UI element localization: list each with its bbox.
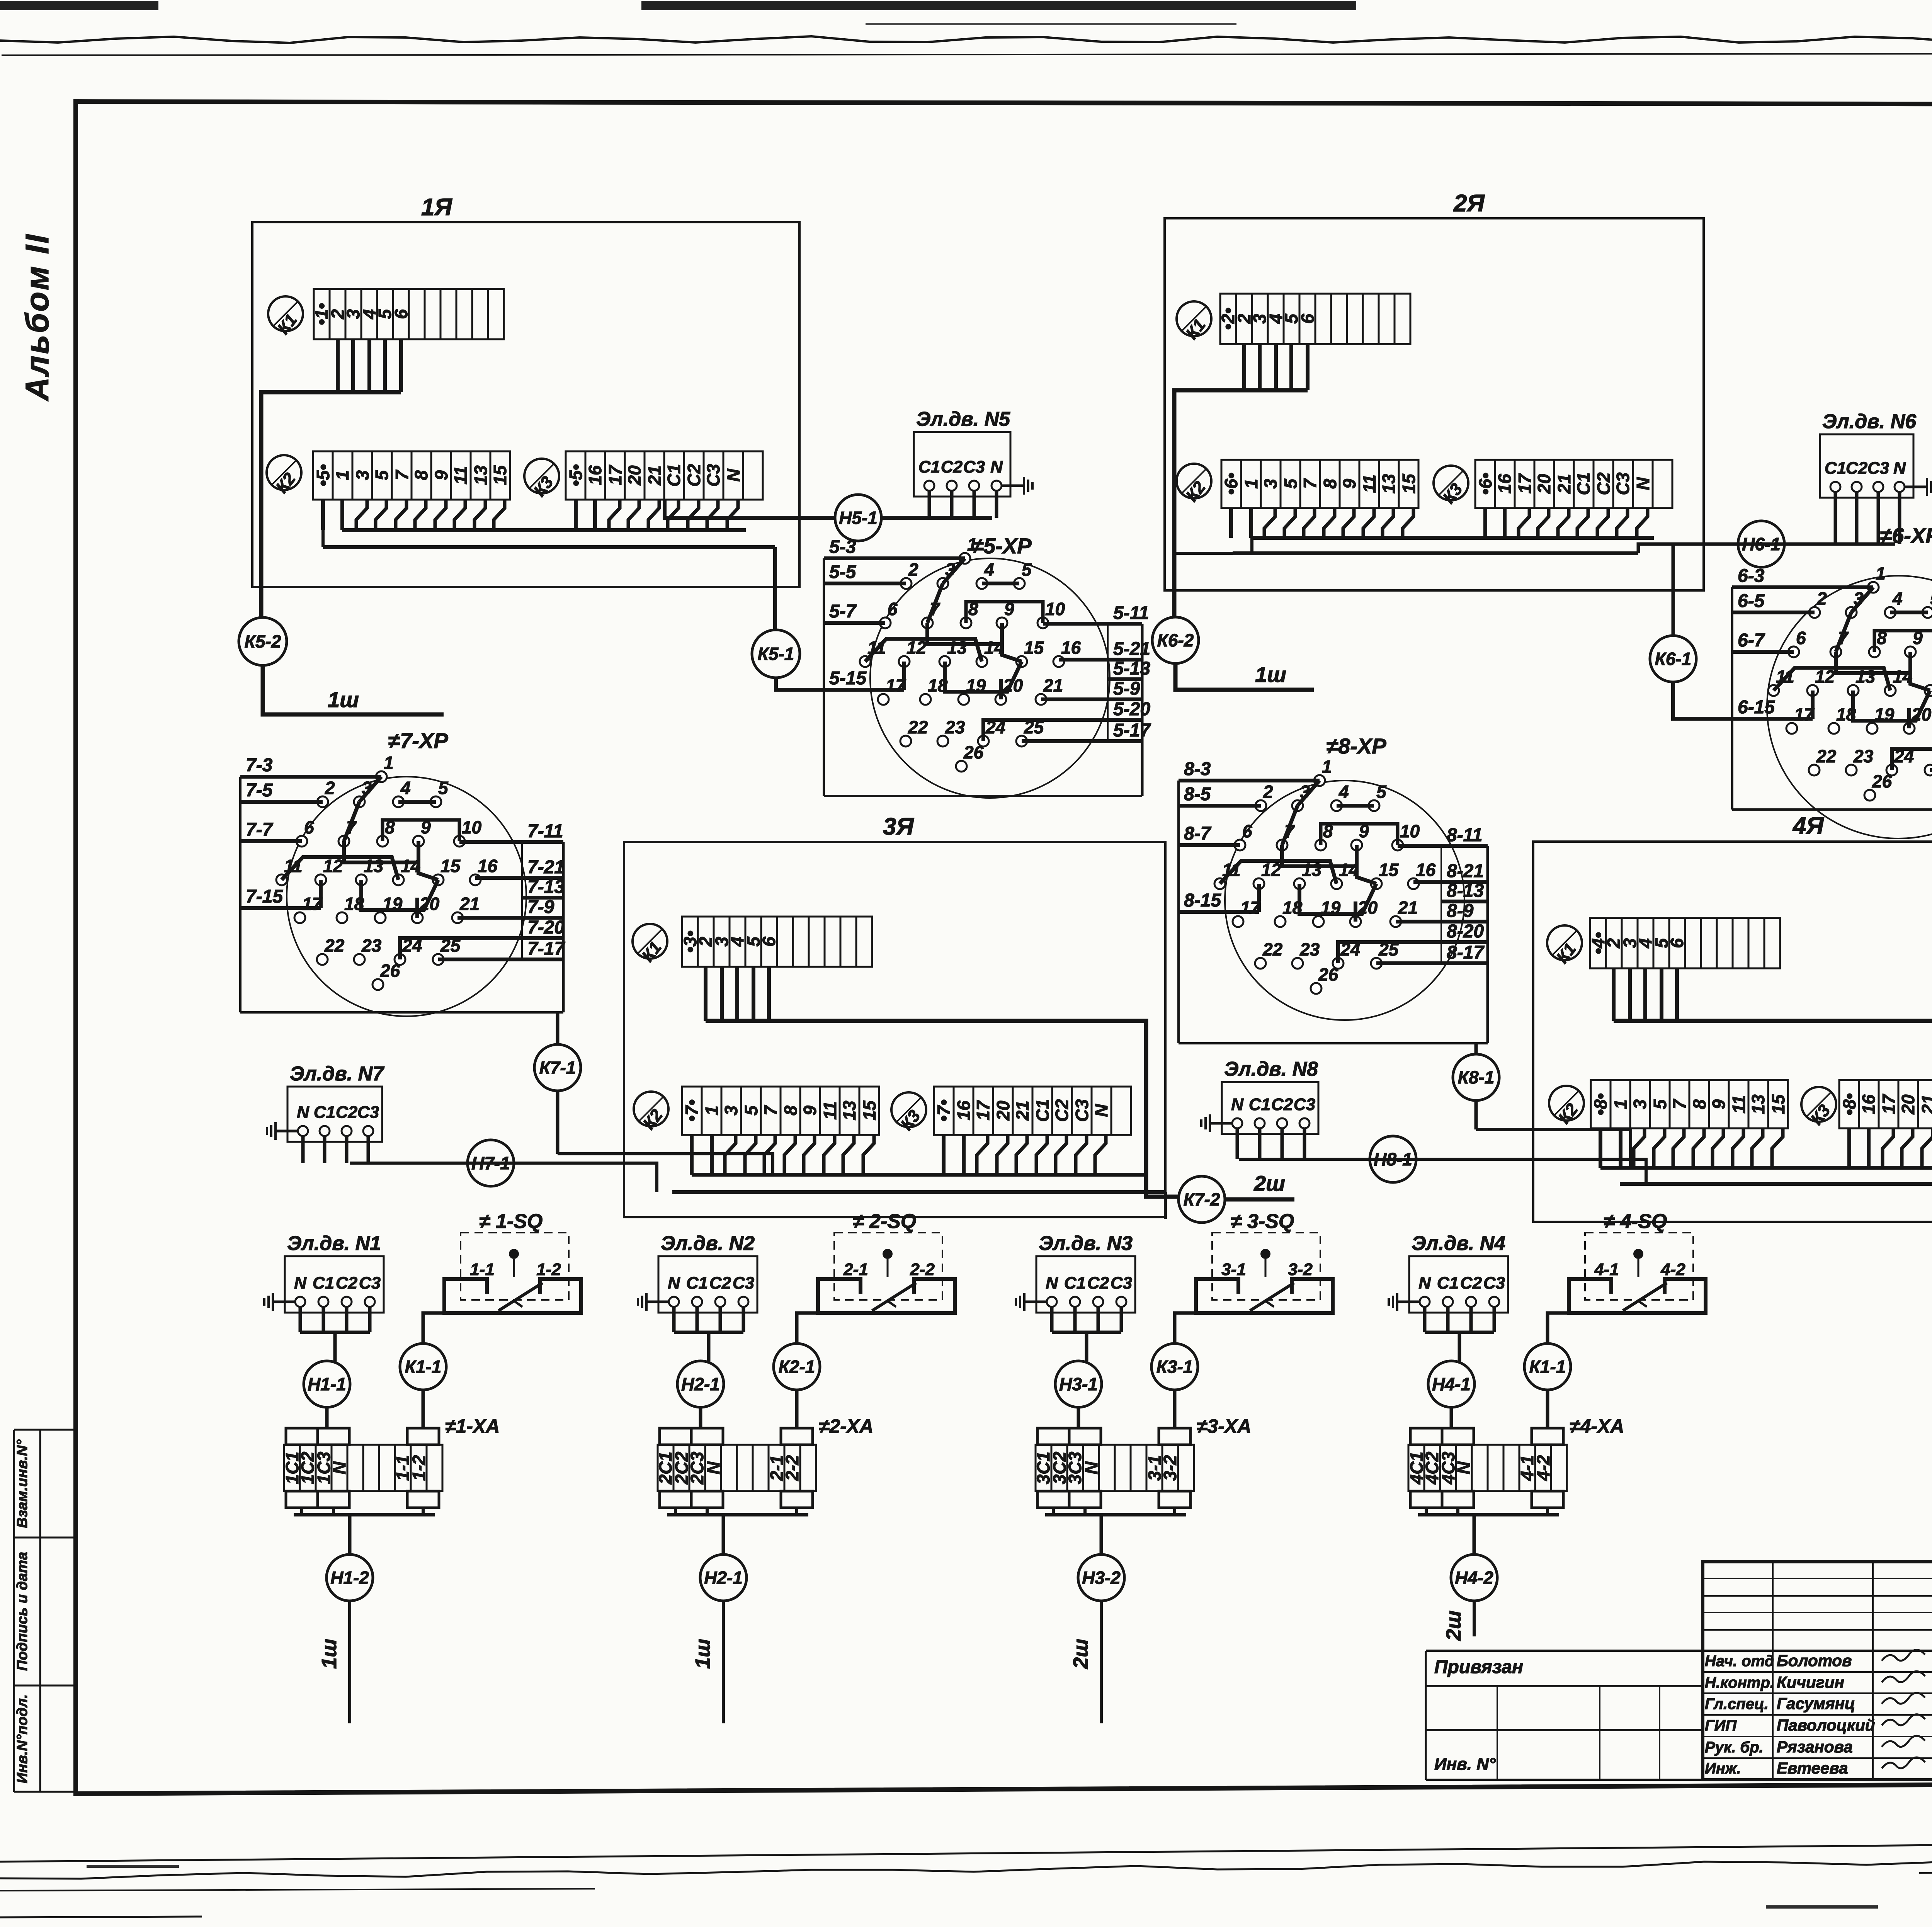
svg-text:9: 9 bbox=[800, 1106, 820, 1116]
svg-text:13: 13 bbox=[1748, 1094, 1768, 1114]
svg-text:8: 8 bbox=[411, 470, 431, 480]
svg-text:7: 7 bbox=[760, 1105, 781, 1116]
svg-text:5: 5 bbox=[1650, 1099, 1670, 1109]
svg-text:Н3-1: Н3-1 bbox=[1059, 1374, 1098, 1394]
svg-text:1-1: 1-1 bbox=[470, 1260, 495, 1279]
svg-text:C1: C1 bbox=[314, 1103, 335, 1122]
svg-text:1: 1 bbox=[1876, 563, 1886, 583]
svg-text:Эл.дв. N3: Эл.дв. N3 bbox=[1039, 1232, 1133, 1255]
svg-text:Н1-2: Н1-2 bbox=[330, 1568, 369, 1588]
svg-text:Рук. бр.: Рук. бр. bbox=[1705, 1739, 1764, 1756]
svg-text:13: 13 bbox=[471, 465, 491, 485]
svg-text:20: 20 bbox=[1898, 1094, 1918, 1115]
svg-text:2: 2 bbox=[908, 560, 918, 580]
svg-text:N: N bbox=[723, 469, 743, 482]
svg-text:16: 16 bbox=[1061, 638, 1081, 658]
svg-text:1ш: 1ш bbox=[1255, 662, 1286, 687]
svg-text:Н4-1: Н4-1 bbox=[1432, 1374, 1471, 1394]
svg-text:N: N bbox=[668, 1274, 680, 1293]
svg-text:•6•: •6• bbox=[1475, 473, 1495, 495]
svg-text:8-7: 8-7 bbox=[1184, 823, 1212, 844]
svg-text:6-15: 6-15 bbox=[1738, 697, 1775, 718]
svg-text:20: 20 bbox=[1534, 474, 1554, 494]
svg-text:15: 15 bbox=[859, 1100, 879, 1121]
svg-text:C1: C1 bbox=[1437, 1274, 1459, 1293]
svg-text:C1: C1 bbox=[1249, 1095, 1270, 1114]
svg-text:N: N bbox=[1418, 1274, 1431, 1293]
svg-text:2-2: 2-2 bbox=[910, 1260, 935, 1279]
svg-text:17: 17 bbox=[973, 1100, 993, 1121]
svg-text:6: 6 bbox=[1796, 628, 1806, 648]
svg-text:•8•: •8• bbox=[1839, 1093, 1859, 1116]
svg-text:8-13: 8-13 bbox=[1447, 881, 1484, 901]
svg-text:8: 8 bbox=[1689, 1099, 1709, 1109]
svg-text:23: 23 bbox=[361, 935, 382, 956]
svg-text:11: 11 bbox=[451, 466, 471, 485]
svg-text:≠ 4-SQ: ≠ 4-SQ bbox=[1604, 1210, 1667, 1233]
svg-text:6-7: 6-7 bbox=[1738, 630, 1765, 651]
svg-text:1: 1 bbox=[384, 753, 394, 773]
svg-text:С1: С1 bbox=[1032, 1099, 1053, 1122]
svg-text:8-3: 8-3 bbox=[1184, 759, 1211, 779]
svg-text:С1: С1 bbox=[1573, 473, 1594, 495]
svg-text:N: N bbox=[294, 1274, 307, 1293]
svg-text:26: 26 bbox=[380, 961, 400, 981]
svg-text:К3-1: К3-1 bbox=[1156, 1357, 1193, 1377]
svg-text:16: 16 bbox=[1495, 474, 1515, 494]
svg-text:C3: C3 bbox=[1111, 1274, 1132, 1293]
svg-text:5-15: 5-15 bbox=[829, 668, 867, 689]
svg-text:2-1: 2-1 bbox=[843, 1260, 868, 1279]
svg-text:21: 21 bbox=[1043, 675, 1063, 696]
svg-text:4: 4 bbox=[984, 560, 994, 580]
svg-text:≠ 1-SQ: ≠ 1-SQ bbox=[479, 1210, 543, 1233]
svg-text:1: 1 bbox=[967, 534, 977, 554]
svg-text:К6-2: К6-2 bbox=[1157, 630, 1194, 650]
svg-text:3: 3 bbox=[352, 470, 372, 480]
svg-text:≠3-XA: ≠3-XA bbox=[1197, 1415, 1251, 1437]
svg-text:N: N bbox=[1081, 1461, 1101, 1475]
svg-text:6-3: 6-3 bbox=[1738, 566, 1765, 586]
svg-text:N: N bbox=[1893, 459, 1906, 478]
svg-text:4: 4 bbox=[1338, 782, 1349, 802]
svg-text:9: 9 bbox=[1339, 479, 1359, 489]
svg-text:5-17: 5-17 bbox=[1113, 720, 1151, 741]
svg-text:•7•: •7• bbox=[682, 1099, 702, 1122]
svg-text:8-21: 8-21 bbox=[1447, 861, 1484, 881]
svg-text:C1: C1 bbox=[1064, 1274, 1086, 1293]
svg-text:3-2: 3-2 bbox=[1160, 1455, 1180, 1481]
svg-text:5: 5 bbox=[741, 1105, 761, 1116]
svg-text:10: 10 bbox=[462, 817, 482, 837]
svg-text:C3: C3 bbox=[1867, 459, 1889, 478]
svg-text:Гл.спец.: Гл.спец. bbox=[1705, 1696, 1769, 1713]
svg-text:≠ 2-SQ: ≠ 2-SQ bbox=[853, 1210, 916, 1233]
svg-text:Эл.дв. N5: Эл.дв. N5 bbox=[916, 408, 1010, 430]
svg-text:≠8-XP: ≠8-XP bbox=[1326, 734, 1386, 758]
svg-text:2: 2 bbox=[1816, 588, 1827, 609]
svg-text:6: 6 bbox=[1298, 314, 1318, 324]
svg-text:10: 10 bbox=[1045, 599, 1065, 619]
svg-text:≠7-XP: ≠7-XP bbox=[388, 728, 448, 753]
svg-text:≠2-XA: ≠2-XA bbox=[819, 1415, 873, 1437]
svg-text:1: 1 bbox=[332, 470, 352, 480]
svg-text:C2: C2 bbox=[1271, 1095, 1293, 1114]
svg-text:7-20: 7-20 bbox=[527, 917, 565, 938]
svg-text:N: N bbox=[1454, 1461, 1474, 1475]
svg-text:Н6-1: Н6-1 bbox=[1742, 534, 1781, 554]
svg-text:К5-1: К5-1 bbox=[758, 644, 794, 664]
svg-text:8: 8 bbox=[781, 1106, 801, 1116]
svg-text:4Я: 4Я bbox=[1792, 813, 1824, 839]
svg-text:3: 3 bbox=[1260, 479, 1281, 489]
svg-text:4: 4 bbox=[1892, 588, 1903, 609]
svg-text:4: 4 bbox=[400, 778, 411, 798]
svg-text:5-3: 5-3 bbox=[829, 537, 856, 557]
svg-text:Эл.дв. N6: Эл.дв. N6 bbox=[1822, 410, 1917, 433]
svg-text:5-13: 5-13 bbox=[1113, 658, 1150, 679]
svg-text:2-2: 2-2 bbox=[782, 1455, 802, 1481]
svg-text:С2: С2 bbox=[1594, 472, 1614, 495]
svg-text:17: 17 bbox=[1515, 473, 1535, 494]
svg-text:7-15: 7-15 bbox=[246, 886, 283, 907]
svg-text:6-5: 6-5 bbox=[1738, 591, 1765, 611]
svg-text:С2: С2 bbox=[684, 464, 704, 486]
svg-text:N: N bbox=[990, 458, 1003, 476]
svg-text:8-9: 8-9 bbox=[1447, 901, 1474, 921]
svg-text:N: N bbox=[1046, 1274, 1058, 1293]
svg-text:3Я: 3Я bbox=[883, 813, 914, 840]
svg-text:13: 13 bbox=[839, 1100, 859, 1121]
svg-text:3-2: 3-2 bbox=[1288, 1260, 1313, 1279]
svg-text:5-5: 5-5 bbox=[829, 562, 857, 582]
svg-text:22: 22 bbox=[1816, 746, 1837, 766]
svg-text:C1: C1 bbox=[686, 1274, 708, 1293]
svg-text:22: 22 bbox=[1262, 939, 1283, 959]
svg-text:7-17: 7-17 bbox=[527, 939, 565, 959]
svg-text:20: 20 bbox=[993, 1100, 1013, 1121]
svg-text:C3: C3 bbox=[963, 458, 985, 476]
svg-text:6: 6 bbox=[1242, 821, 1252, 841]
svg-text:1: 1 bbox=[1322, 757, 1332, 777]
svg-text:6: 6 bbox=[304, 817, 314, 837]
svg-text:21: 21 bbox=[1554, 474, 1574, 494]
svg-text:К6-1: К6-1 bbox=[1655, 649, 1692, 669]
svg-text:Рязанова: Рязанова bbox=[1777, 1738, 1853, 1756]
svg-text:Н3-2: Н3-2 bbox=[1082, 1568, 1121, 1588]
svg-text:5-7: 5-7 bbox=[829, 601, 857, 622]
svg-text:C2: C2 bbox=[709, 1274, 731, 1293]
svg-text:2: 2 bbox=[1263, 782, 1273, 802]
svg-text:6: 6 bbox=[1667, 938, 1687, 948]
svg-text:≠6-XP: ≠6-XP bbox=[1880, 523, 1932, 548]
svg-text:8-17: 8-17 bbox=[1447, 942, 1485, 963]
svg-text:N: N bbox=[1633, 477, 1653, 490]
svg-text:7: 7 bbox=[1300, 478, 1320, 489]
svg-text:•5•: •5• bbox=[566, 464, 586, 486]
svg-text:C3: C3 bbox=[1483, 1274, 1505, 1293]
svg-text:7-5: 7-5 bbox=[246, 780, 273, 801]
svg-text:22: 22 bbox=[324, 935, 345, 956]
svg-text:Подпись и дата: Подпись и дата bbox=[14, 1552, 31, 1671]
svg-text:Гасумянц: Гасумянц bbox=[1777, 1694, 1855, 1713]
svg-text:2ш: 2ш bbox=[1069, 1639, 1092, 1669]
svg-text:К7-2: К7-2 bbox=[1184, 1189, 1220, 1209]
svg-text:N: N bbox=[297, 1103, 310, 1122]
svg-text:10: 10 bbox=[1400, 821, 1420, 841]
svg-text:К7-1: К7-1 bbox=[539, 1058, 576, 1078]
svg-text:1: 1 bbox=[1241, 479, 1261, 489]
svg-text:≠4-XA: ≠4-XA bbox=[1570, 1415, 1624, 1437]
svg-text:≠ 3-SQ: ≠ 3-SQ bbox=[1231, 1210, 1294, 1233]
svg-text:23: 23 bbox=[945, 717, 965, 737]
svg-text:1-2: 1-2 bbox=[536, 1260, 561, 1279]
svg-text:26: 26 bbox=[1872, 771, 1892, 791]
svg-text:15: 15 bbox=[440, 856, 461, 876]
svg-text:5-11: 5-11 bbox=[1113, 603, 1149, 623]
svg-text:1-2: 1-2 bbox=[409, 1455, 429, 1481]
svg-text:C3: C3 bbox=[357, 1103, 379, 1122]
svg-text:С3: С3 bbox=[1613, 472, 1633, 495]
svg-text:Н5-1: Н5-1 bbox=[839, 508, 878, 528]
svg-text:4-1: 4-1 bbox=[1594, 1260, 1619, 1279]
svg-text:С1: С1 bbox=[664, 464, 684, 487]
svg-text:•8•: •8• bbox=[1590, 1093, 1611, 1116]
svg-text:22: 22 bbox=[908, 717, 928, 737]
svg-text:C3: C3 bbox=[733, 1274, 754, 1293]
svg-text:Паволоцкий: Паволоцкий bbox=[1777, 1716, 1875, 1734]
svg-text:1: 1 bbox=[1611, 1099, 1631, 1109]
svg-text:7-11: 7-11 bbox=[527, 821, 563, 842]
svg-text:Взам.инв.N°: Взам.инв.N° bbox=[14, 1439, 31, 1528]
svg-text:N: N bbox=[1231, 1095, 1244, 1114]
svg-text:Эл.дв. N7: Эл.дв. N7 bbox=[290, 1063, 384, 1085]
svg-text:Эл.дв. N1: Эл.дв. N1 bbox=[287, 1232, 381, 1255]
svg-text:К8-1: К8-1 bbox=[1458, 1067, 1495, 1087]
svg-text:≠5-XP: ≠5-XP bbox=[971, 534, 1032, 558]
svg-text:7-9: 7-9 bbox=[527, 897, 554, 917]
svg-text:C2: C2 bbox=[941, 458, 963, 476]
svg-text:5: 5 bbox=[1376, 782, 1387, 802]
svg-text:6: 6 bbox=[391, 309, 411, 319]
svg-text:7: 7 bbox=[1669, 1099, 1689, 1109]
svg-text:1Я: 1Я bbox=[421, 194, 452, 221]
svg-text:К2-1: К2-1 bbox=[779, 1357, 815, 1377]
svg-text:К5-2: К5-2 bbox=[245, 631, 281, 651]
svg-text:1: 1 bbox=[702, 1106, 722, 1116]
svg-text:5: 5 bbox=[372, 470, 392, 480]
svg-text:16: 16 bbox=[954, 1100, 974, 1121]
svg-text:C3: C3 bbox=[1294, 1095, 1315, 1114]
svg-text:8-11: 8-11 bbox=[1447, 825, 1483, 845]
svg-text:С3: С3 bbox=[703, 464, 723, 486]
svg-text:9: 9 bbox=[431, 470, 451, 480]
svg-text:15: 15 bbox=[490, 465, 510, 485]
svg-text:2: 2 bbox=[325, 778, 335, 798]
svg-text:C1: C1 bbox=[313, 1274, 334, 1293]
svg-text:7-13: 7-13 bbox=[527, 877, 565, 897]
svg-text:Эл.дв. N2: Эл.дв. N2 bbox=[661, 1232, 755, 1255]
svg-text:21: 21 bbox=[1398, 898, 1418, 918]
svg-text:Евтеева: Евтеева bbox=[1777, 1759, 1848, 1777]
svg-text:К1-1: К1-1 bbox=[1529, 1357, 1566, 1377]
svg-text:21: 21 bbox=[1012, 1100, 1032, 1121]
svg-text:C2: C2 bbox=[1846, 459, 1868, 478]
svg-text:4-2: 4-2 bbox=[1533, 1455, 1553, 1481]
svg-text:5-9: 5-9 bbox=[1113, 679, 1140, 699]
svg-text:7-3: 7-3 bbox=[246, 755, 273, 776]
svg-text:4-2: 4-2 bbox=[1660, 1260, 1685, 1279]
svg-text:23: 23 bbox=[1853, 746, 1874, 766]
svg-text:6: 6 bbox=[759, 937, 779, 947]
svg-text:Н1-1: Н1-1 bbox=[308, 1374, 346, 1394]
svg-text:3: 3 bbox=[1630, 1099, 1650, 1109]
svg-text:8-5: 8-5 bbox=[1184, 784, 1211, 804]
svg-text:21: 21 bbox=[645, 465, 665, 485]
svg-text:5: 5 bbox=[1281, 478, 1301, 489]
svg-text:11: 11 bbox=[820, 1101, 840, 1120]
svg-text:9: 9 bbox=[1709, 1099, 1729, 1109]
svg-text:Н7-1: Н7-1 bbox=[471, 1153, 510, 1173]
svg-text:5: 5 bbox=[438, 778, 449, 798]
svg-text:C3: C3 bbox=[359, 1274, 381, 1293]
svg-text:Инж.: Инж. bbox=[1705, 1760, 1741, 1777]
svg-text:•7•: •7• bbox=[934, 1099, 954, 1122]
svg-text:Эл.дв. N8: Эл.дв. N8 bbox=[1224, 1058, 1318, 1080]
svg-text:13: 13 bbox=[1379, 474, 1399, 494]
svg-text:16: 16 bbox=[585, 465, 605, 485]
svg-text:26: 26 bbox=[1318, 964, 1338, 985]
svg-text:•6•: •6• bbox=[1221, 473, 1241, 495]
svg-text:20: 20 bbox=[624, 465, 645, 486]
svg-text:5: 5 bbox=[1022, 560, 1032, 580]
svg-text:C2: C2 bbox=[1460, 1274, 1482, 1293]
svg-text:15: 15 bbox=[1024, 638, 1044, 658]
svg-text:5: 5 bbox=[1930, 588, 1932, 609]
svg-text:17: 17 bbox=[1879, 1094, 1899, 1114]
svg-text:C2: C2 bbox=[1087, 1274, 1109, 1293]
svg-text:C1: C1 bbox=[918, 458, 940, 476]
svg-text:Привязан: Привязан bbox=[1434, 1657, 1523, 1677]
svg-text:Болотов: Болотов bbox=[1777, 1651, 1852, 1670]
svg-text:21: 21 bbox=[459, 894, 480, 914]
svg-text:•5•: •5• bbox=[313, 464, 333, 486]
svg-text:7-7: 7-7 bbox=[246, 820, 274, 840]
svg-text:Н8-1: Н8-1 bbox=[1374, 1149, 1412, 1169]
svg-text:8: 8 bbox=[1320, 479, 1340, 489]
svg-text:Инв.N°подл.: Инв.N°подл. bbox=[14, 1694, 31, 1784]
svg-text:16: 16 bbox=[1859, 1094, 1879, 1114]
svg-text:Н2-1: Н2-1 bbox=[704, 1568, 743, 1588]
svg-text:Кичигин: Кичигин bbox=[1777, 1673, 1844, 1691]
svg-text:2ш: 2ш bbox=[1253, 1171, 1285, 1196]
svg-text:С3: С3 bbox=[1072, 1099, 1092, 1122]
svg-text:Н.контр.: Н.контр. bbox=[1705, 1674, 1774, 1691]
svg-text:2ш: 2ш bbox=[1442, 1611, 1465, 1641]
svg-text:23: 23 bbox=[1299, 939, 1320, 959]
svg-text:C2: C2 bbox=[336, 1103, 358, 1122]
svg-text:Н2-1: Н2-1 bbox=[681, 1374, 720, 1394]
svg-text:6: 6 bbox=[888, 599, 898, 619]
svg-text:Нач. отд: Нач. отд bbox=[1705, 1653, 1774, 1670]
svg-text:2Я: 2Я bbox=[1453, 190, 1485, 217]
svg-text:N: N bbox=[1091, 1104, 1111, 1117]
svg-text:15: 15 bbox=[1379, 860, 1399, 880]
svg-text:1ш: 1ш bbox=[691, 1639, 714, 1669]
svg-text:3-1: 3-1 bbox=[1221, 1260, 1246, 1279]
svg-text:1ш: 1ш bbox=[318, 1639, 341, 1669]
svg-text:Альбом II: Альбом II bbox=[19, 233, 55, 401]
svg-text:8-15: 8-15 bbox=[1184, 890, 1221, 911]
svg-text:Инв. N°: Инв. N° bbox=[1434, 1755, 1496, 1774]
svg-text:1ш: 1ш bbox=[328, 687, 359, 712]
svg-text:Эл.дв. N4: Эл.дв. N4 bbox=[1412, 1232, 1505, 1255]
svg-text:16: 16 bbox=[1416, 860, 1436, 880]
svg-text:≠1-XA: ≠1-XA bbox=[445, 1415, 500, 1437]
svg-text:К1-1: К1-1 bbox=[405, 1357, 442, 1377]
svg-text:15: 15 bbox=[1399, 473, 1419, 494]
svg-text:7: 7 bbox=[392, 469, 412, 480]
svg-text:N: N bbox=[329, 1461, 349, 1475]
svg-text:26: 26 bbox=[963, 742, 984, 762]
svg-text:11: 11 bbox=[1359, 475, 1379, 493]
svg-text:16: 16 bbox=[478, 856, 498, 876]
svg-text:21: 21 bbox=[1918, 1094, 1932, 1114]
svg-text:ГИП: ГИП bbox=[1705, 1717, 1737, 1734]
svg-text:C2: C2 bbox=[336, 1274, 358, 1293]
svg-text:C1: C1 bbox=[1825, 459, 1846, 478]
svg-text:N: N bbox=[703, 1461, 723, 1475]
svg-text:17: 17 bbox=[605, 464, 625, 485]
svg-text:15: 15 bbox=[1768, 1094, 1788, 1114]
svg-text:Н4-2: Н4-2 bbox=[1455, 1568, 1493, 1588]
svg-text:С2: С2 bbox=[1052, 1099, 1072, 1122]
svg-text:11: 11 bbox=[1729, 1095, 1749, 1114]
svg-text:5-21: 5-21 bbox=[1113, 639, 1150, 659]
svg-text:5-20: 5-20 bbox=[1113, 699, 1150, 719]
svg-text:8-20: 8-20 bbox=[1447, 921, 1484, 942]
svg-text:7-21: 7-21 bbox=[527, 857, 565, 878]
svg-text:3: 3 bbox=[721, 1106, 741, 1116]
